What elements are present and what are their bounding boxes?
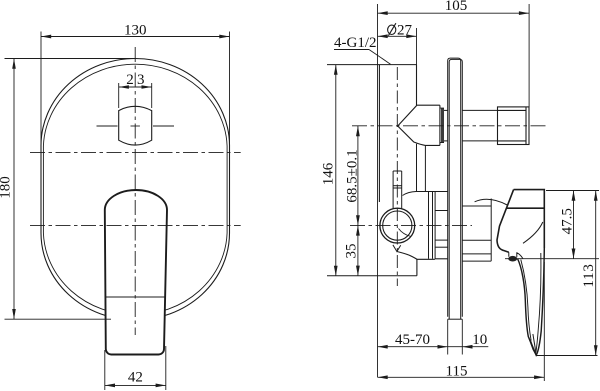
dimension 42: [105, 346, 166, 390]
inlet tube right wall: [416, 65, 418, 106]
svg-text:35: 35: [344, 244, 360, 259]
handle inner grip arc: [523, 222, 543, 243]
mounting strip: [429, 192, 449, 259]
v-notch below circle: [393, 245, 401, 252]
svg-text:42: 42: [128, 369, 143, 385]
outlet cone: [398, 105, 440, 145]
knob horizontal center ticks: [97, 125, 175, 127]
label 4-G1/2 with leader: [334, 50, 391, 65]
lever handle front view: [105, 190, 167, 354]
dimension 47.5: [505, 191, 599, 259]
dimension 115: [378, 262, 545, 381]
lever handle joint line: [106, 296, 165, 298]
svg-text:27: 27: [397, 23, 413, 39]
adjuster stem: [393, 171, 402, 209]
svg-text:4-G1/2: 4-G1/2: [334, 35, 377, 51]
lower horizontal center line (pivot axis): [30, 224, 241, 226]
set screw: [508, 256, 517, 262]
svg-text:115: 115: [446, 363, 468, 379]
body bottom step: [417, 259, 448, 276]
cover plate inner contour: [43, 64, 227, 315]
body top-back edge: [403, 192, 449, 196]
inlet tube left wall: [378, 65, 380, 202]
cartridge circle inner: [383, 211, 412, 240]
svg-text:45-70: 45-70: [395, 332, 430, 348]
diverter knob front view: [119, 106, 152, 145]
handle neck arc: [475, 199, 508, 205]
vertical center line side view: [396, 67, 398, 286]
cover plate outer contour: [41, 59, 230, 321]
svg-text:180: 180: [0, 176, 14, 199]
dimension 130: [41, 32, 230, 154]
upper horizontal center line front view: [30, 151, 241, 153]
lever blade side view: [518, 248, 545, 355]
tube top edge + 146 extension: [327, 64, 417, 66]
outlet collar (thread shading): [440, 108, 444, 142]
dimension 35: [357, 225, 359, 275]
svg-text:113: 113: [581, 263, 597, 287]
dimension Ø27: [378, 28, 417, 65]
dimension 146: [335, 65, 337, 276]
dimension 23: [119, 83, 152, 108]
svg-text:3: 3: [137, 72, 145, 88]
dimension 180: [5, 59, 136, 320]
long left extension line (tube wall / 105 / 45-70 / 115): [377, 4, 379, 377]
body lower-left profile: [397, 252, 417, 260]
threaded nipple: [498, 107, 530, 145]
dimension 105: [378, 4, 530, 107]
neck verticals: [417, 144, 426, 192]
body bottom edge + extension: [327, 275, 417, 277]
svg-text:146: 146: [321, 162, 337, 185]
dimension 45-70 and 10: [378, 319, 489, 354]
wall plate edge view: [448, 58, 463, 319]
svg-text:10: 10: [472, 332, 487, 348]
horizontal center line outlet axis: [352, 125, 548, 127]
outlet pipe through wall: [444, 110, 498, 140]
handle boss behind plate: [462, 199, 491, 262]
svg-text:2: 2: [126, 72, 134, 88]
dimension 113: [536, 191, 598, 356]
svg-text:130: 130: [124, 22, 147, 38]
svg-text:47.5: 47.5: [560, 208, 576, 234]
blade inner lines: [521, 253, 541, 353]
blade tip facets: [528, 334, 536, 355]
handle cap side view: [497, 190, 544, 253]
cartridge circle outer: [380, 208, 415, 243]
vertical center line front view: [134, 47, 136, 335]
handle underside notch: [509, 252, 523, 258]
svg-text:105: 105: [445, 0, 468, 14]
horizontal center line cartridge axis: [350, 224, 472, 226]
dimension 68.5±0.1: [357, 126, 359, 225]
svg-text:68.5±0.1: 68.5±0.1: [345, 149, 361, 202]
circle inner detail: [399, 229, 412, 237]
